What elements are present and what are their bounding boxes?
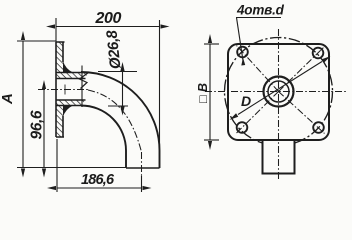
pipe top wall hatched	[56, 73, 89, 79]
extension line top of flange for dim A	[17, 40, 56, 42]
svg-text:96,6: 96,6	[29, 110, 46, 139]
pipe top wall outlines	[56, 73, 89, 79]
pipe centerline horizontal	[38, 89, 88, 91]
axis cross tick on flange	[64, 85, 66, 95]
diagonal centerline to top-right hole	[279, 48, 324, 92]
outlet stub behind flange	[263, 141, 295, 174]
outlet axis extension to dimension	[141, 176, 143, 192]
dimension Ø26.8 line with arrows	[122, 72, 124, 106]
dimension 186.6 line with arrows	[57, 187, 142, 189]
dimension 200 line with arrows	[56, 26, 160, 28]
diagonal centerline to bottom-left hole	[236, 92, 279, 135]
extension line flange left down	[56, 139, 58, 192]
break zigzag	[80, 73, 89, 89]
square flange outline	[228, 44, 329, 140]
outlet mouth line	[126, 167, 160, 169]
outlet left edge	[125, 151, 127, 169]
extension tick bottom for B	[204, 139, 219, 141]
D diameter line with arrows	[238, 62, 322, 115]
fillet upper (weld wedge)	[63, 61, 73, 73]
svg-text:186,6: 186,6	[81, 172, 115, 188]
elbow outer arc	[81, 72, 160, 151]
dimension square B line with arrows	[209, 44, 211, 140]
svg-text:200: 200	[95, 10, 122, 27]
outlet right edge	[159, 151, 161, 169]
baseline / bottom extension line	[17, 167, 126, 169]
central bore inner circle	[268, 81, 289, 102]
flange plate hatched upper part	[56, 42, 63, 73]
bolt hole top-right	[313, 48, 324, 59]
extension line flange left edge up	[55, 18, 57, 42]
extension line pipe OD bottom	[108, 105, 128, 107]
extension line pipe OD top	[98, 71, 137, 73]
central bore outer circle	[264, 77, 294, 107]
svg-text:D: D	[241, 93, 251, 109]
bolt hole top-left	[237, 47, 248, 58]
flange vertical centerline	[278, 29, 280, 179]
svg-text:A: A	[0, 93, 16, 105]
dimension A line with arrows	[22, 41, 24, 168]
outlet axis centerline vertical	[141, 152, 143, 176]
pipe bottom wall hatched	[56, 100, 86, 106]
diagonal centerline to top-left hole	[237, 46, 279, 92]
dimension 96.6 line with arrows	[43, 90, 45, 168]
leader underline	[236, 17, 281, 19]
flange plate hatched lower part	[56, 106, 63, 137]
leader line to top-left hole	[237, 18, 244, 65]
extension line right (200) merging into outlet right edge	[159, 20, 161, 168]
fillet lower (weld wedge)	[63, 106, 73, 118]
leader arrowhead	[241, 58, 245, 66]
bolt circle (dash-dot)	[225, 38, 333, 146]
bolt hole bottom-left	[237, 122, 248, 133]
elbow inner arc	[81, 106, 126, 151]
diagonal centerline to bottom-right hole	[279, 92, 325, 134]
local-section break boundary vertical	[81, 66, 83, 108]
pipe bottom wall outlines	[56, 100, 86, 106]
bolt hole bottom-right	[313, 122, 324, 133]
svg-text:□ B: □ B	[196, 83, 210, 103]
flange plate outline	[56, 42, 65, 137]
svg-text:4отв.d: 4отв.d	[236, 3, 285, 18]
extension tick top for B	[204, 43, 219, 45]
elbow centerline arc	[88, 90, 142, 152]
flange horizontal centerline	[205, 91, 346, 93]
